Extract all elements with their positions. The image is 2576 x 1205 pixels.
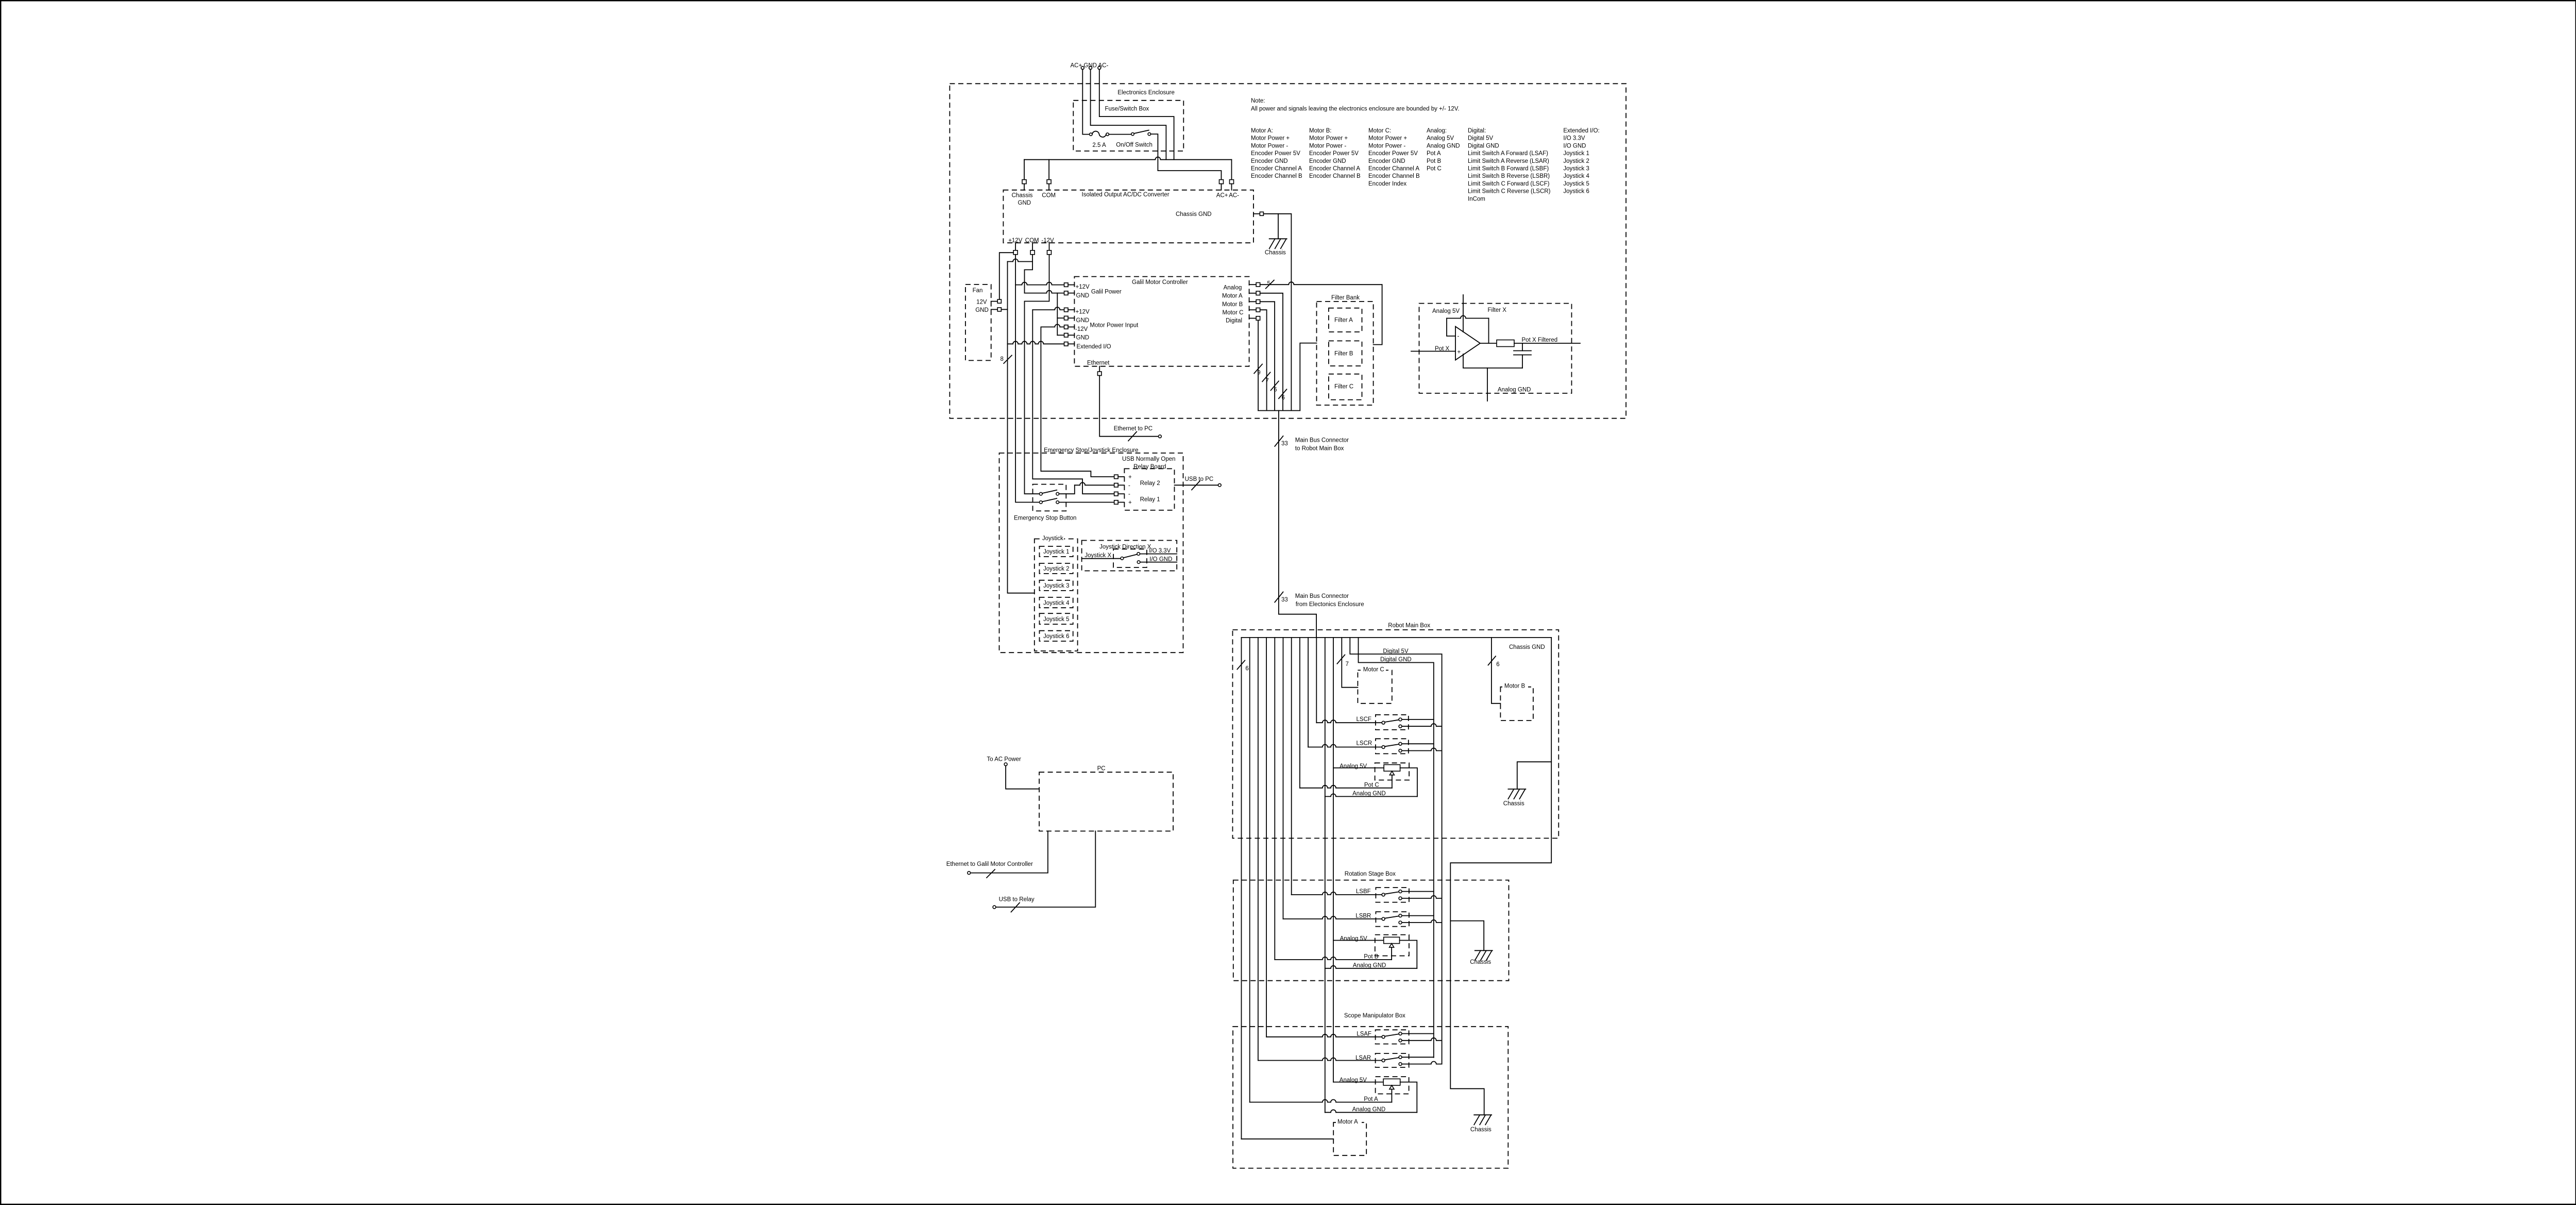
svg-text:Extended I/O:: Extended I/O: (1563, 128, 1599, 134)
svg-text:Encoder Power 5V: Encoder Power 5V (1309, 150, 1359, 157)
svg-text:Joystick 1: Joystick 1 (1043, 549, 1070, 555)
svg-text:Digital 5V: Digital 5V (1468, 136, 1494, 142)
wire ethernet to PC (1099, 376, 1158, 437)
svg-text:Filter B: Filter B (1334, 351, 1353, 357)
wire bus vertical LSBF feed (1291, 638, 1292, 895)
wire Motor C feed (1342, 638, 1358, 688)
svg-text:Analog:: Analog: (1427, 128, 1447, 134)
svg-text:AC-: AC- (1229, 193, 1239, 199)
limit switch LSCF (1316, 715, 1442, 730)
svg-text:Analog 5V: Analog 5V (1427, 136, 1454, 142)
svg-text:Joystick 3: Joystick 3 (1563, 166, 1589, 172)
wire filter return bus (1300, 343, 1316, 411)
ground chassis (scope manipulator) (1470, 1115, 1492, 1133)
svg-text:Motor Power -: Motor Power - (1309, 143, 1346, 149)
svg-text:5: 5 (1267, 281, 1270, 287)
svg-text:Motor Power +: Motor Power + (1309, 136, 1348, 142)
wire fan GND to COM rail (1001, 309, 1007, 310)
svg-text:Encoder GND: Encoder GND (1309, 158, 1346, 164)
svg-text:Encoder Channel A: Encoder Channel A (1368, 166, 1419, 172)
svg-text:Analog GND: Analog GND (1352, 791, 1386, 797)
svg-text:6: 6 (1274, 387, 1277, 393)
svg-text:Joystick 5: Joystick 5 (1043, 616, 1070, 623)
wire fuse to switch (1109, 134, 1131, 135)
port galil Extended I/O y=667.3 (1064, 342, 1069, 346)
svg-text:Relay Board: Relay Board (1133, 464, 1166, 470)
port -12V (bottom) (1049, 243, 1050, 250)
svg-text:+: + (1128, 500, 1132, 506)
fuse F1 2.5 A (1090, 131, 1109, 148)
svg-text:Motor A:: Motor A: (1251, 128, 1273, 134)
svg-text:Joystick 6: Joystick 6 (1043, 633, 1070, 640)
svg-text:Analog 5V: Analog 5V (1432, 308, 1460, 314)
svg-text:I/O GND: I/O GND (1563, 143, 1586, 149)
svg-text:Encoder GND: Encoder GND (1251, 158, 1288, 164)
wire GND terminal down (1091, 70, 1166, 160)
wire bus vertical LSCR feed (1308, 638, 1309, 747)
svg-text:USB to PC: USB to PC (1185, 476, 1214, 482)
svg-text:Galil Power: Galil Power (1091, 289, 1122, 295)
svg-text:Joystick 2: Joystick 2 (1043, 566, 1070, 572)
svg-text:Ethernet: Ethernet (1087, 360, 1110, 366)
wire Analog 5V into op-amp (1463, 295, 1464, 332)
svg-text:Emergency Stop/Joystick Enclos: Emergency Stop/Joystick Enclosure (1044, 447, 1138, 454)
wire bus vertical Analog GND rail (1325, 638, 1326, 1112)
joystick Joystick 1 (1040, 546, 1073, 557)
limit switch LSBF (1292, 888, 1442, 902)
filter detail Filter X box (1419, 304, 1572, 393)
svg-text:GND: GND (975, 307, 989, 313)
svg-text:Relay 1: Relay 1 (1140, 497, 1160, 503)
svg-text:On/Off Switch: On/Off Switch (1116, 142, 1153, 148)
svg-text:Chassis: Chassis (1470, 1127, 1492, 1133)
svg-text:All power and signals leaving: All power and signals leaving the electr… (1251, 106, 1460, 112)
svg-text:Motor B: Motor B (1504, 683, 1526, 690)
port AC+ (top) (1219, 180, 1224, 184)
svg-text:9: 9 (1257, 370, 1260, 376)
wire AC- down to AC- port (1231, 160, 1232, 180)
svg-text:Motor Power +: Motor Power + (1368, 136, 1407, 142)
svg-text:6: 6 (1496, 662, 1499, 668)
inner switch box (1113, 549, 1147, 567)
svg-text:Limit Switch C Forward (LSCF): Limit Switch C Forward (LSCF) (1468, 181, 1550, 187)
port galil +12V y=552.6 (1064, 283, 1069, 287)
wire Analog GND drop (1487, 368, 1488, 401)
enclosure Electronics Enclosure (950, 83, 1626, 418)
wire Motor A feed (1242, 1139, 1334, 1140)
label bus 9 (1254, 364, 1262, 374)
port Chassis GND (top) (1022, 180, 1026, 184)
svg-text:from Electonics Enclosure: from Electonics Enclosure (1296, 601, 1364, 608)
switch e-stop 1 (1040, 492, 1043, 495)
svg-text:Main Bus Connector: Main Bus Connector (1295, 593, 1349, 599)
wire GND tie rail (3 GND ports) (1057, 293, 1058, 336)
svg-text:Chassis: Chassis (1012, 193, 1033, 199)
wire AC power to PC (1006, 766, 1039, 789)
svg-text:GND: GND (1076, 293, 1090, 299)
resistor R1 (1497, 340, 1514, 347)
svg-text:12V: 12V (976, 299, 987, 306)
wire AC- terminal down (1099, 70, 1174, 160)
wire COM rail main (to galil GND) (1025, 255, 1033, 293)
wire -12V rail jog down to e-stop switch1 (1025, 255, 1049, 494)
svg-text:Encoder Channel B: Encoder Channel B (1368, 173, 1420, 179)
wire Motor B feed (1492, 638, 1501, 704)
svg-text:Galil Motor Controller: Galil Motor Controller (1132, 279, 1188, 286)
wire e-stop sw1 out to relay2 - (hop) (1059, 485, 1075, 494)
svg-text:Fan: Fan (973, 288, 983, 294)
filter Filter C (1329, 374, 1362, 400)
wire Analog bus to Filter Bank (5 wires) (1260, 282, 1382, 284)
wire Motor B bus (1260, 302, 1275, 410)
wire Motor C bus (1260, 310, 1267, 410)
svg-text:6: 6 (1282, 395, 1285, 401)
port galil GND y=568.6 (1064, 291, 1069, 295)
svg-text:Encoder Channel A: Encoder Channel A (1251, 166, 1302, 172)
svg-text:-12V: -12V (1041, 238, 1054, 244)
joystick Joystick 6 (1040, 631, 1073, 641)
wire to chassis symbol (1278, 214, 1279, 239)
wire motor +12V return rail (from relay) (1032, 307, 1064, 310)
wire I/O 3.3V (1140, 554, 1177, 555)
svg-text:Analog 5V: Analog 5V (1340, 763, 1367, 769)
svg-text:Digital GND: Digital GND (1468, 143, 1499, 149)
svg-text:Limit Switch A Forward (LSAF): Limit Switch A Forward (LSAF) (1468, 150, 1548, 157)
svg-text:COM: COM (1042, 193, 1056, 199)
wire bottom rail (1463, 354, 1522, 368)
svg-text:33: 33 (1281, 597, 1288, 603)
svg-text:Motor Power +: Motor Power + (1251, 136, 1290, 142)
svg-text:Encoder Channel A: Encoder Channel A (1309, 166, 1360, 172)
svg-text:LSCF: LSCF (1357, 716, 1371, 723)
svg-text:Pot A: Pot A (1364, 1096, 1378, 1102)
svg-text:-12V: -12V (1075, 326, 1088, 332)
svg-text:Motor Power Input: Motor Power Input (1090, 323, 1139, 329)
wire Digital 5V tap (1350, 638, 1442, 1064)
svg-text:+12V: +12V (1076, 309, 1090, 315)
wire bus vertical Pot A wiper (1249, 638, 1250, 1102)
wire galil +12V feed (hops) (1015, 282, 1064, 285)
label bus 6 (second) (1279, 389, 1287, 398)
svg-text:Ethernet to Galil Motor Contro: Ethernet to Galil Motor Controller (946, 861, 1033, 867)
emergency stop button box (1033, 484, 1066, 511)
svg-text:6: 6 (1245, 666, 1248, 672)
potentiometer Pot B (1275, 935, 1417, 969)
svg-text:Filter A: Filter A (1334, 317, 1353, 324)
svg-text:Motor C: Motor C (1223, 310, 1244, 316)
port galil Motor B (1249, 301, 1257, 302)
svg-text:Motor Power -: Motor Power - (1368, 143, 1405, 149)
svg-text:Pot X Filtered: Pot X Filtered (1522, 337, 1558, 343)
port relay - y=958.2 (1114, 492, 1118, 496)
controller Galil Motor Controller (1074, 277, 1249, 366)
svg-text:Motor B: Motor B (1222, 302, 1243, 308)
wire gnd bus to converter (hop over switch wire) (1024, 157, 1232, 160)
limit switch LSAF (1266, 1030, 1442, 1044)
label bus 6 (1271, 381, 1279, 390)
svg-text:Joystick: Joystick (1042, 535, 1063, 542)
wire bundle bar (1258, 410, 1300, 411)
svg-text:7: 7 (1346, 661, 1349, 667)
wire e-stop sw2 out to relay1 + (1059, 502, 1114, 503)
wire Motor A bus (1260, 293, 1283, 411)
svg-text:USB Normally Open: USB Normally Open (1122, 456, 1176, 462)
label bus 8 (1004, 355, 1012, 363)
potentiometer Pot A (1250, 1077, 1417, 1113)
port galil Ethernet (1099, 366, 1100, 372)
svg-text:PC: PC (1097, 766, 1106, 772)
wire bus vertical Analog 5V rail (1333, 638, 1334, 1082)
label bus 6 (left) (1237, 660, 1245, 669)
svg-text:Motor B:: Motor B: (1309, 128, 1331, 134)
svg-text:LSBF: LSBF (1356, 889, 1371, 895)
joystick Joystick 5 (1040, 613, 1073, 624)
wire rotation chassis tee (1450, 921, 1484, 951)
svg-text:Joystick 1: Joystick 1 (1563, 150, 1589, 157)
terminal GND (1089, 66, 1092, 70)
svg-text:Joystick X: Joystick X (1084, 553, 1111, 559)
svg-text:Analog: Analog (1224, 285, 1242, 291)
svg-text:Chassis GND: Chassis GND (1176, 211, 1212, 217)
wire switch to AC+ port of converter (1151, 134, 1222, 180)
svg-text:Pot C: Pot C (1364, 782, 1379, 788)
terminal AC- (1098, 66, 1101, 70)
joystick Joystick 3 (1040, 580, 1073, 591)
joystick Joystick 4 (1040, 597, 1073, 608)
joystick box (1035, 539, 1078, 651)
svg-text:Digital 5V: Digital 5V (1383, 648, 1409, 655)
port fan GND (991, 309, 998, 310)
wire chassis gnd to main bundle (1263, 214, 1291, 411)
svg-text:Relay 2: Relay 2 (1140, 480, 1160, 487)
wire bus vertical LSAF feed (1266, 638, 1267, 1037)
svg-text:Motor C: Motor C (1363, 666, 1384, 673)
limit switch LSBR (1283, 912, 1442, 927)
svg-text:LSCR: LSCR (1357, 740, 1372, 746)
filter bank box (1317, 302, 1374, 405)
enclosure Emergency Stop/Joystick Enclosure (999, 453, 1183, 652)
wire feedback loop (hop over 5V) (1447, 316, 1489, 319)
wire bus vertical LSAR feed (1258, 638, 1259, 1061)
motor Motor B (1500, 687, 1533, 721)
svg-text:Pot B: Pot B (1364, 953, 1378, 960)
svg-text:7: 7 (1265, 378, 1268, 384)
svg-text:Motor Power -: Motor Power - (1251, 143, 1288, 149)
svg-text:8: 8 (1001, 356, 1004, 362)
svg-text:Encoder Index: Encoder Index (1368, 181, 1406, 187)
port galil +12V y=601.1 (1064, 308, 1069, 312)
wire op-amp output (1480, 343, 1497, 344)
svg-text:To AC Power: To AC Power (987, 756, 1021, 762)
computer PC box (1039, 772, 1173, 831)
svg-text:Limit Switch A Reverse (LSAR): Limit Switch A Reverse (LSAR) (1468, 158, 1549, 164)
port relay + y=925.0 (1114, 475, 1118, 479)
svg-text:Filter C: Filter C (1334, 384, 1353, 390)
svg-text:Encoder Channel B: Encoder Channel B (1251, 173, 1302, 179)
port +12V (bottom) (1015, 243, 1016, 250)
svg-text:Analog GND: Analog GND (1427, 143, 1460, 149)
svg-text:-: - (1128, 482, 1130, 489)
svg-text:Pot X: Pot X (1435, 346, 1449, 352)
wire PC USB (996, 831, 1095, 908)
svg-text:Pot C: Pot C (1427, 166, 1442, 172)
port COM (bottom) (1032, 243, 1033, 250)
switch SPDT joystick (1121, 557, 1124, 560)
ground chassis (rotation stage) (1470, 950, 1493, 965)
svg-text:Chassis: Chassis (1470, 959, 1491, 965)
svg-text:Note:: Note: (1251, 98, 1265, 104)
svg-text:Analog GND: Analog GND (1352, 1107, 1386, 1113)
wire bus vertical LSBR feed (1283, 638, 1284, 919)
svg-text:Joystick 5: Joystick 5 (1563, 181, 1589, 187)
wire bus vertical Pot B wiper (1274, 638, 1275, 960)
wire gnd bus down to Chassis GND port (1024, 160, 1025, 180)
enclosure Fuse/Switch Box (1073, 101, 1183, 151)
fan box (965, 284, 991, 361)
limit switch LSCR (1308, 739, 1442, 754)
port COM (top) (1047, 180, 1051, 184)
port AC- (top) (1230, 180, 1234, 184)
joystick Joystick 2 (1040, 563, 1073, 574)
svg-text:Digital GND: Digital GND (1380, 657, 1412, 663)
svg-text:Isolated Output AC/DC Converte: Isolated Output AC/DC Converter (1082, 192, 1170, 198)
svg-text:Emergency Stop Button: Emergency Stop Button (1014, 515, 1076, 522)
op-amp U1 (1455, 327, 1480, 360)
wire right edge chassis bus (1450, 638, 1551, 1115)
wire gnd bus down to COM port (1048, 160, 1049, 180)
svg-text:+12V: +12V (1076, 284, 1090, 290)
wire AC+ to fuse (1082, 70, 1089, 135)
svg-text:Joystick 2: Joystick 2 (1563, 158, 1589, 164)
wire bus vertical LSCF feed / main bus (1316, 638, 1317, 723)
wire main bus connector (33) (1279, 411, 1316, 638)
wire Pot X input (1411, 351, 1455, 352)
potentiometer Pot C (1300, 763, 1417, 797)
svg-text:Chassis: Chassis (1503, 800, 1524, 807)
note text block (1251, 98, 1600, 202)
wire motor -12V return rail (from relay) (1041, 324, 1064, 327)
svg-text:Analog GND: Analog GND (1498, 387, 1531, 393)
svg-text:Chassis GND: Chassis GND (1509, 644, 1545, 650)
wire +12V to fan (999, 253, 1013, 299)
wire Digital bus (1258, 320, 1259, 410)
svg-text:AC+: AC+ (1216, 193, 1228, 199)
capacitor C1 (1522, 343, 1523, 351)
port relay + y=974.5 (1114, 500, 1118, 505)
port galil GND y=650.3 (1064, 333, 1069, 338)
wire Digital GND tap (1359, 638, 1434, 1058)
motor Motor A (1333, 1123, 1366, 1156)
svg-text:Encoder Power 5V: Encoder Power 5V (1251, 150, 1300, 157)
svg-text:Filter Bank: Filter Bank (1331, 295, 1360, 301)
svg-text:Joystick 6: Joystick 6 (1563, 189, 1589, 195)
svg-text:Robot Main Box: Robot Main Box (1388, 623, 1430, 629)
wire galil GND feed (hop -12V rail) (1025, 291, 1064, 293)
port galil GND y=617.1 (1064, 316, 1069, 320)
converter Isolated Output AC/DC Converter (1003, 190, 1253, 243)
svg-text:Fuse/Switch Box: Fuse/Switch Box (1105, 106, 1149, 112)
svg-text:Rotation Stage Box: Rotation Stage Box (1345, 871, 1396, 877)
svg-text:+: + (1458, 349, 1461, 356)
wire Pot X Filtered output (1514, 343, 1580, 344)
svg-text:Pot B: Pot B (1427, 158, 1441, 164)
port galil Motor A (1249, 293, 1257, 294)
svg-text:InCom: InCom (1468, 196, 1485, 202)
svg-text:I/O 3.3V: I/O 3.3V (1563, 136, 1585, 142)
svg-text:Motor C:: Motor C: (1368, 128, 1391, 134)
motor Motor C (1358, 670, 1392, 703)
wire COM rail branch A (to fan gnd, ext io, joystick) (1008, 259, 1033, 262)
svg-text:GND: GND (1076, 334, 1090, 341)
svg-text:Encoder GND: Encoder GND (1368, 158, 1405, 164)
wire relay board to USB to PC (1175, 484, 1218, 486)
svg-text:Chassis: Chassis (1265, 250, 1286, 256)
wire robot chassis tee (1517, 762, 1551, 789)
relay board USB Normally Open Relay Board (1124, 468, 1174, 510)
wire bus bar (1242, 637, 1552, 638)
svg-text:Scope Manipulator Box: Scope Manipulator Box (1344, 1013, 1405, 1019)
label bus 7 (1262, 372, 1270, 381)
filter Filter B (1329, 341, 1362, 366)
svg-text:Analog GND: Analog GND (1353, 962, 1386, 968)
svg-text:Encoder Channel B: Encoder Channel B (1309, 173, 1361, 179)
svg-text:Encoder Power 5V: Encoder Power 5V (1368, 150, 1418, 157)
svg-text:Limit Switch B Reverse (LSBR): Limit Switch B Reverse (LSBR) (1468, 173, 1550, 179)
svg-text:Joystick 3: Joystick 3 (1043, 583, 1070, 589)
svg-text:Joystick 4: Joystick 4 (1563, 173, 1589, 179)
svg-text:Limit Switch C Reverse (LSCR): Limit Switch C Reverse (LSCR) (1468, 189, 1551, 195)
svg-text:Motor A: Motor A (1337, 1119, 1358, 1125)
wire Extended I/O feed (hops 4 rails) (1008, 341, 1064, 344)
wire +12V rail down to e-stop switch2 (1015, 255, 1039, 503)
wire PC ethernet (971, 831, 1048, 873)
ground chassis (robot main box) (1503, 789, 1526, 807)
svg-text:GND: GND (1076, 317, 1090, 324)
switch SW1 On/Off (1116, 130, 1153, 148)
svg-text:I/O 3.3V: I/O 3.3V (1149, 548, 1171, 554)
svg-text:+: + (1128, 474, 1132, 480)
filter Filter A (1329, 308, 1362, 332)
svg-text:GND: GND (1018, 200, 1031, 206)
enclosure Scope Manipulator Box (1233, 1027, 1508, 1168)
wire bus vertical Motor A feed (1241, 638, 1242, 1139)
joystick direction X box (1082, 541, 1177, 571)
svg-text:-: - (1128, 491, 1130, 497)
wire bus vertical Pot C wiper (1299, 638, 1300, 788)
port galil Motor C (1249, 309, 1257, 310)
svg-text:2.5 A: 2.5 A (1092, 142, 1106, 148)
svg-text:Electronics Enclosure: Electronics Enclosure (1117, 90, 1175, 96)
switch e-stop 2 (1040, 501, 1043, 504)
port relay - y=941.3 (1114, 483, 1118, 488)
port galil Analog (1249, 284, 1257, 285)
svg-text:Main Bus Connector: Main Bus Connector (1295, 438, 1349, 444)
port fan 12V (991, 301, 998, 302)
svg-text:Motor A: Motor A (1222, 293, 1243, 299)
svg-text:LSBR: LSBR (1355, 913, 1371, 919)
ground chassis (converter) (1265, 239, 1287, 256)
svg-text:Filter X: Filter X (1488, 307, 1507, 313)
port galil -12V y=634.4 (1064, 325, 1069, 329)
svg-text:Digital:: Digital: (1468, 128, 1486, 134)
limit switch LSAR (1258, 1053, 1442, 1067)
svg-text:-: - (1458, 333, 1460, 340)
svg-text:to Robot Main Box: to Robot Main Box (1295, 446, 1344, 452)
wire I/O GND (1140, 562, 1177, 563)
svg-text:USB to Relay: USB to Relay (999, 896, 1035, 902)
wire joystick X input (1082, 558, 1121, 559)
svg-text:I/O GND: I/O GND (1149, 556, 1172, 562)
